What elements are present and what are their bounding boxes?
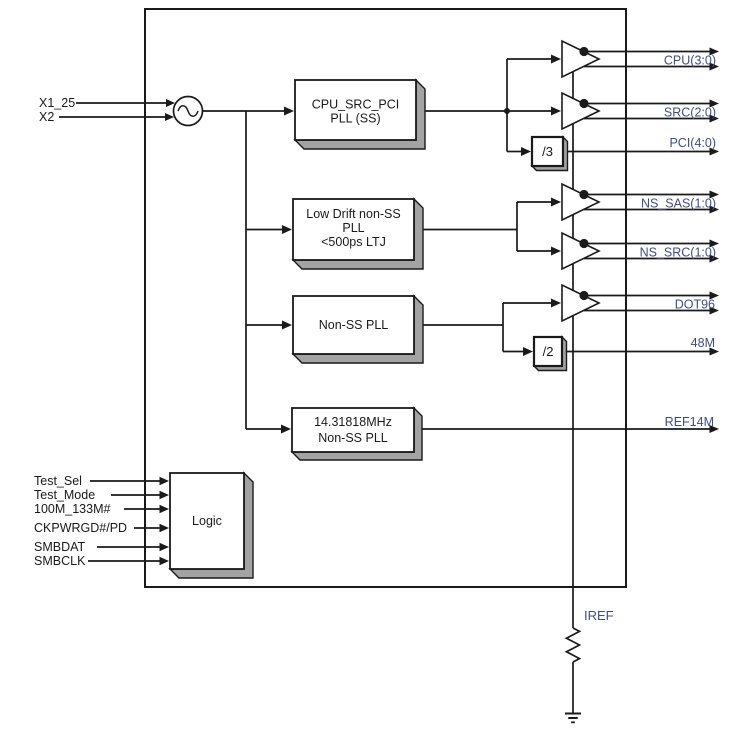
svg-text:14.31818MHz: 14.31818MHz <box>314 415 392 429</box>
svg-text:Test_Mode: Test_Mode <box>34 488 95 502</box>
svg-text:<500ps LTJ: <500ps LTJ <box>321 235 386 249</box>
svg-text:SMBCLK: SMBCLK <box>34 554 86 568</box>
svg-text:Non-SS PLL: Non-SS PLL <box>318 431 388 445</box>
svg-text:CKPWRGD#/PD: CKPWRGD#/PD <box>34 521 127 535</box>
svg-text:PCI(4:0): PCI(4:0) <box>669 136 716 150</box>
svg-text:PLL: PLL <box>342 221 364 235</box>
svg-text:REF14M: REF14M <box>665 415 714 429</box>
svg-text:Test_Sel: Test_Sel <box>34 474 82 488</box>
svg-text:NS_SAS(1:0): NS_SAS(1:0) <box>641 197 716 211</box>
svg-text:48M: 48M <box>691 336 715 350</box>
svg-text:CPU_SRC_PCI: CPU_SRC_PCI <box>312 98 400 112</box>
svg-text:DOT96: DOT96 <box>675 298 715 312</box>
svg-text:/3: /3 <box>542 144 553 159</box>
svg-text:/2: /2 <box>543 344 554 359</box>
svg-text:IREF: IREF <box>584 608 614 623</box>
svg-text:CPU(3:0): CPU(3:0) <box>664 54 716 68</box>
svg-text:Low Drift non-SS: Low Drift non-SS <box>306 207 400 221</box>
svg-text:X1_25: X1_25 <box>39 96 75 110</box>
svg-text:X2: X2 <box>39 110 54 124</box>
svg-text:Logic: Logic <box>192 514 222 528</box>
svg-text:SMBDAT: SMBDAT <box>34 540 86 554</box>
svg-text:PLL (SS): PLL (SS) <box>330 112 380 126</box>
svg-text:SRC(2:0): SRC(2:0) <box>664 106 716 120</box>
svg-text:Non-SS PLL: Non-SS PLL <box>319 318 389 332</box>
svg-text:NS_SRC(1:0): NS_SRC(1:0) <box>640 246 716 260</box>
svg-text:100M_133M#: 100M_133M# <box>34 502 110 516</box>
